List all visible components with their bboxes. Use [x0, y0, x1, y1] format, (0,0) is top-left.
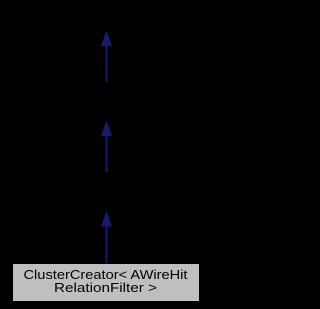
svg-text:RelationFilter >: RelationFilter >	[54, 280, 157, 295]
inheritance arrow 3 (bottom)	[101, 211, 112, 263]
inheritance arrow 2 (middle)	[101, 121, 112, 173]
class node ClusterCreator< AWireHitRelationFilter >	[13, 264, 200, 302]
inheritance arrow 1 (top)	[101, 31, 112, 82]
